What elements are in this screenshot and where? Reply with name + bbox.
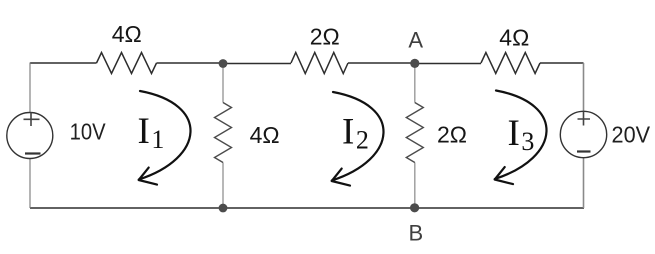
svg-text:2Ω: 2Ω — [310, 24, 340, 50]
svg-text:B: B — [408, 221, 423, 246]
svg-text:2Ω: 2Ω — [437, 122, 467, 148]
svg-text:10V: 10V — [70, 119, 107, 145]
svg-text:4Ω: 4Ω — [112, 21, 142, 47]
svg-text:4Ω: 4Ω — [499, 25, 529, 51]
svg-text:A: A — [408, 28, 423, 53]
svg-text:4Ω: 4Ω — [250, 122, 280, 148]
svg-text:20V: 20V — [612, 122, 651, 148]
